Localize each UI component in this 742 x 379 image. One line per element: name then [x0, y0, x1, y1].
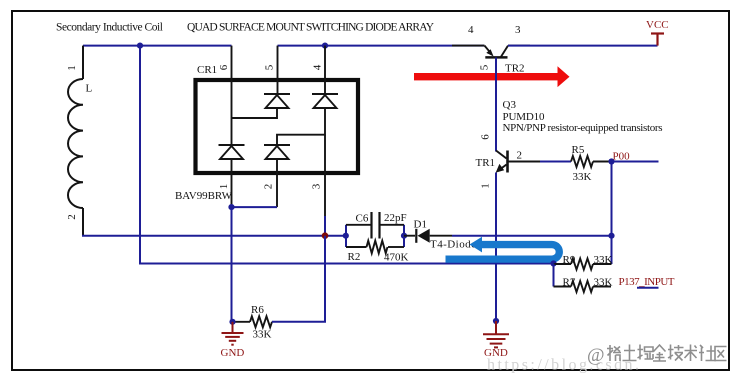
node junction pin4 on net3	[322, 43, 328, 49]
diode D1	[404, 229, 452, 243]
wire pin3 down to net2	[324, 216, 326, 236]
svg-text:R7: R7	[563, 277, 576, 289]
svg-text:@: @	[587, 345, 605, 366]
svg-text:33K: 33K	[594, 254, 613, 266]
pin 2 lead	[276, 159, 278, 207]
svg-text:R5: R5	[572, 144, 585, 156]
svg-text:1: 1	[66, 65, 78, 71]
svg-text:470K: 470K	[384, 252, 409, 264]
inductor L	[68, 79, 83, 208]
wire P00 down to net2/R9	[611, 162, 613, 265]
diode array CR1 package box	[196, 80, 359, 173]
svg-text:6: 6	[218, 64, 230, 70]
svg-text:TR1: TR1	[476, 157, 496, 169]
wire R9 node down to R7	[553, 264, 555, 287]
wire D1 anode to P00 net vertical	[452, 235, 612, 237]
resistor R2	[346, 241, 404, 254]
wire C6/R2 right bracket	[403, 225, 405, 247]
svg-text:4: 4	[312, 64, 324, 70]
wire net1 top (inductor top to CR1 pin 6)	[83, 45, 232, 47]
wire R5 to P00	[593, 161, 612, 163]
svg-text:P137_INPUT: P137_INPUT	[619, 276, 675, 288]
transistor TR1 (NPN)	[496, 151, 508, 173]
svg-text:Secondary Inductive Coil: Secondary Inductive Coil	[56, 22, 163, 34]
wire TR2 base down to TR1 collector	[495, 58, 497, 152]
wire C6/R2 left bracket	[345, 225, 347, 247]
diode D (pin2 to pin3 node)	[264, 145, 290, 159]
svg-text:3: 3	[515, 24, 521, 36]
node junction pin3/net2 (dark red)	[322, 232, 329, 239]
wire TR1 emitter down to GND	[495, 173, 497, 322]
diode C (pin1 to pin6 line)	[219, 145, 245, 159]
wire TR2 collector to VCC	[508, 45, 658, 47]
svg-text:3: 3	[311, 183, 323, 189]
node junction net2/C6R2 right	[401, 233, 407, 239]
svg-text:NPN/PNP resistor-equipped tran: NPN/PNP resistor-equipped transistors	[503, 122, 663, 134]
internal wire pin6 to diode A anode	[232, 108, 278, 118]
svg-text:4: 4	[468, 24, 474, 36]
wire P137_INPUT stub	[637, 287, 659, 289]
red current arrow	[414, 66, 570, 87]
svg-text:C6: C6	[356, 213, 369, 225]
transistor TR2 (PNP)	[485, 46, 509, 58]
wire P00 stub right	[612, 161, 659, 163]
resistor R9	[554, 259, 612, 270]
svg-text:1: 1	[218, 184, 230, 190]
svg-text:L: L	[86, 83, 93, 95]
svg-text:VCC: VCC	[646, 19, 669, 31]
svg-text:BAV99BRW: BAV99BRW	[175, 190, 233, 202]
wire black lead from TR2 collector	[508, 45, 530, 47]
svg-text:R9: R9	[563, 254, 576, 266]
svg-text:R6: R6	[251, 304, 264, 316]
inductor L lead bottom	[82, 208, 84, 236]
wire TR1 base to R5	[508, 161, 572, 163]
ground GND2	[483, 321, 509, 347]
node junction R9 left on second wire	[550, 260, 556, 266]
node junction net2/P00 vertical	[608, 233, 614, 239]
svg-text:22pF: 22pF	[384, 212, 407, 224]
svg-text:QUAD SURFACE MOUNT SWITCHING D: QUAD SURFACE MOUNT SWITCHING DIODE ARRAY	[187, 22, 435, 34]
wire R6 right to pin3 net	[272, 236, 325, 322]
node junction P00	[608, 158, 614, 164]
wire black lead into TR2 emitter	[452, 45, 485, 47]
ground GND1	[222, 322, 244, 345]
pin 5 lead	[277, 46, 279, 94]
wire main horizontal net2 (L pin2 across to C6/R2)	[83, 235, 346, 236]
resistor R6	[233, 316, 273, 327]
node junction on net1 at x=140	[137, 43, 143, 49]
wire pin1 node down to R6/GND	[231, 207, 233, 322]
watermark community text	[587, 345, 727, 367]
blue current arrow	[446, 237, 563, 263]
svg-text:33K: 33K	[253, 329, 272, 341]
diode B (pin3 to pin4)	[312, 94, 338, 108]
resistor R7	[554, 281, 612, 292]
svg-text:P00: P00	[613, 151, 631, 163]
resistor R5	[571, 156, 593, 167]
svg-text:5: 5	[479, 64, 491, 70]
wire from net1 junction down and across to R9 node	[140, 46, 554, 264]
svg-text:33K: 33K	[573, 171, 592, 183]
svg-text:2: 2	[517, 150, 523, 162]
svg-text:1: 1	[480, 183, 492, 189]
pin 4 lead	[324, 46, 326, 94]
wire pin1 to pin2 tie	[232, 206, 278, 208]
internal wire diode B anode to pin3	[277, 108, 325, 145]
wire net3 (CR1 pins 5,4 to TR2 emitter)	[278, 45, 485, 47]
node junction net2/C6R2 left	[343, 233, 349, 239]
power VCC symbol	[651, 34, 664, 46]
svg-text:5: 5	[264, 64, 276, 70]
svg-text:6: 6	[480, 134, 492, 140]
node junction TR1 emitter / GND2	[493, 318, 499, 324]
svg-text:2: 2	[66, 214, 78, 220]
svg-text:2: 2	[263, 184, 275, 190]
node junction at pin1	[228, 204, 234, 210]
pin 1 lead	[231, 159, 233, 207]
svg-text:R2: R2	[348, 251, 361, 263]
capacitor C6	[346, 212, 404, 239]
svg-text:33K: 33K	[594, 277, 613, 289]
svg-text:GND: GND	[221, 347, 245, 359]
svg-text:D1: D1	[414, 219, 427, 231]
svg-text:T4-Diode: T4-Diode	[430, 239, 476, 251]
pin 6 lead	[231, 46, 233, 145]
diode A (pin6 to pin5)	[264, 94, 290, 108]
svg-text:TR2: TR2	[505, 63, 525, 75]
svg-text:CR1: CR1	[197, 64, 217, 76]
svg-text:Q3: Q3	[503, 99, 517, 111]
inductor L1 lead top	[82, 46, 84, 79]
pin 3 lead	[324, 135, 326, 216]
node junction R6/GND	[229, 319, 235, 325]
